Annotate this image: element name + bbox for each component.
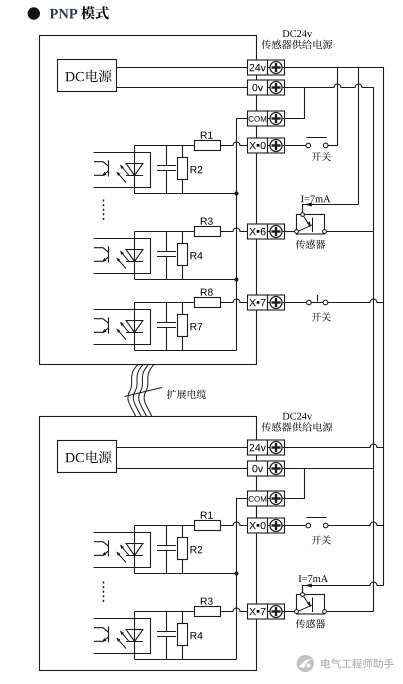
wire drop 24v to upper sensor supply xyxy=(358,68,360,205)
terminal 24v L: screw symbol xyxy=(268,442,285,454)
terminal 24v L: label text xyxy=(250,444,266,451)
wire X*6 U to sensor xyxy=(285,231,295,233)
wire 0v L to 0v rail xyxy=(285,468,374,470)
wire switch to 24v rail (hop over 0v rail) xyxy=(328,299,384,303)
title PNP 模式 xyxy=(50,9,78,19)
terminal 24v U: screw symbol xyxy=(268,62,285,74)
terminal X*7 L: screw symbol xyxy=(268,606,285,618)
sensor pin circles xyxy=(295,593,327,614)
upper COM bus xyxy=(237,119,248,351)
upper input row X*6: top wire xyxy=(135,231,195,233)
label R2 xyxy=(191,546,203,553)
lower PLC unit enclosure xyxy=(40,417,257,671)
optocoupler phototransistor xyxy=(94,160,109,176)
label R7 xyxy=(191,323,203,330)
terminal COM L: screw symbol xyxy=(268,493,285,505)
label R1 xyxy=(201,512,213,519)
upper input row X*0: top wire xyxy=(135,145,195,147)
resistor R1 xyxy=(195,521,221,531)
row bottom wire to COM bus xyxy=(135,573,237,575)
wire X*7 L to sensor xyxy=(285,611,295,613)
row bottom wire to COM bus xyxy=(135,279,237,281)
label DC24v xyxy=(283,30,313,37)
optocoupler light arrows xyxy=(117,632,129,649)
optocoupler LED branch wire xyxy=(134,232,136,280)
optocoupler light arrows xyxy=(117,252,129,269)
label R2 xyxy=(191,166,203,173)
resistor R3 xyxy=(195,227,221,237)
wire sensor supply to 24v rail (hop over 0v rail) xyxy=(303,582,384,593)
label R4 xyxy=(191,632,203,639)
terminal X*0 L: screw symbol xyxy=(268,520,285,532)
expansion cable strands xyxy=(128,365,138,417)
optocoupler box xyxy=(94,239,151,274)
wire R3 to terminal X*6 (hop over COM bus) xyxy=(221,228,248,231)
junction node lower row X*0 common xyxy=(235,572,239,576)
optocoupler box xyxy=(94,153,151,188)
wire COM L to 0v line xyxy=(285,469,305,499)
label I=7mA xyxy=(299,575,328,582)
terminal X*6 U: label text xyxy=(249,228,259,235)
resistor R2 (parallel) xyxy=(178,146,188,194)
sensor box xyxy=(297,215,325,235)
filter capacitor branch xyxy=(157,526,176,574)
wire X*0 L to switch xyxy=(285,525,307,527)
watermark logo xyxy=(297,655,314,672)
terminal X*7 U: label text xyxy=(249,299,259,306)
optocoupler phototransistor xyxy=(94,540,109,556)
terminal X*6 U: screw symbol xyxy=(268,226,285,238)
label 开关 xyxy=(312,312,331,321)
label 开关 xyxy=(312,535,331,544)
switch contact circles xyxy=(306,143,328,148)
terminal 0v L: screw symbol xyxy=(268,463,285,475)
terminal X*0 L: label text xyxy=(249,522,259,529)
label 传感器 xyxy=(296,619,326,628)
terminal COM U: label box xyxy=(248,111,268,126)
switch blade (open) xyxy=(306,137,326,139)
resistor R8 xyxy=(195,298,221,308)
optocoupler LED xyxy=(126,321,143,333)
optocoupler box xyxy=(94,310,151,345)
watermark text 电气工程师助手 xyxy=(321,659,393,669)
label R1 xyxy=(201,132,213,139)
terminal X*7 U: screw symbol xyxy=(268,297,285,309)
resistor R3 xyxy=(195,607,221,617)
resistor R4 (parallel) xyxy=(178,612,188,660)
wire DC+ to 24v terminal (lower) xyxy=(117,447,248,449)
optocoupler phototransistor xyxy=(94,246,109,262)
switch blade (open) xyxy=(306,517,326,519)
sensor internal PNP transistor symbol xyxy=(298,596,312,612)
wire switch to 24v drop xyxy=(328,145,338,147)
terminal X*0 U: screw symbol xyxy=(268,140,285,152)
wire sensor top to 24v drop xyxy=(303,205,359,213)
optocoupler phototransistor xyxy=(94,626,109,642)
resistor R2 (parallel) xyxy=(178,526,188,574)
terminal 0v U: screw symbol xyxy=(268,82,285,94)
optocoupler light arrows xyxy=(117,546,129,563)
terminal X*7 L: screw box xyxy=(268,604,285,619)
terminal X*0 U: label text xyxy=(249,142,259,149)
wire X*7 U to switch xyxy=(285,302,307,304)
terminal 0v U: screw box xyxy=(268,80,285,95)
terminal 24v L: label box xyxy=(248,440,268,455)
optocoupler light arrows xyxy=(117,166,129,183)
lower input row X*7: top wire xyxy=(135,611,195,613)
terminal 0v U: label text xyxy=(252,84,263,91)
terminal X*7 L: label text xyxy=(249,608,259,615)
DC power supply box DC电源 xyxy=(58,60,117,92)
filter capacitor branch xyxy=(157,232,176,280)
wire DC- to 0v terminal xyxy=(117,87,248,89)
junction node row X*6 common xyxy=(235,278,239,282)
optocoupler LED branch wire xyxy=(134,303,136,351)
terminal X*6 U: screw box xyxy=(268,224,285,239)
ellipsis (more inputs) xyxy=(103,200,105,223)
label 开关 xyxy=(312,152,331,161)
sensor supply stub xyxy=(302,205,304,213)
optocoupler box xyxy=(94,619,151,654)
wire R1 to terminal X*0 (hop over COM bus) xyxy=(221,522,248,525)
optocoupler phototransistor xyxy=(94,317,109,333)
wire COM U to 0v line xyxy=(285,88,305,119)
terminal X*0 L: screw box xyxy=(268,518,285,533)
terminal 24v U: label box xyxy=(248,60,268,75)
terminal 0v L: label text xyxy=(252,465,263,472)
optocoupler LED branch wire xyxy=(134,146,136,194)
filter capacitor branch xyxy=(157,303,176,351)
terminal X*7 U: screw box xyxy=(268,295,285,310)
label R4 xyxy=(191,252,203,259)
lower input row X*0: top wire xyxy=(135,525,195,527)
label 扩展电缆 xyxy=(167,390,206,399)
junction node row X*0 common xyxy=(235,192,239,196)
wire sensor output to 0v rail xyxy=(326,611,373,613)
upper input row X*7: top wire xyxy=(135,302,195,304)
terminal COM L: label text xyxy=(249,496,267,502)
label DC24v xyxy=(283,413,313,420)
lower COM bus xyxy=(237,499,248,660)
terminal COM U: label text xyxy=(249,116,267,122)
terminal COM U: screw symbol xyxy=(268,113,285,125)
title bullet xyxy=(28,7,40,19)
row bottom wire to COM bus xyxy=(135,659,237,661)
wire drop 24v to upper X*0 switch xyxy=(337,68,339,146)
terminal COM L: screw box xyxy=(268,491,285,506)
wire R1 to terminal X*0 (hop over COM bus) xyxy=(221,142,248,146)
label 传感器 xyxy=(296,240,326,249)
terminal X*7 L: label box xyxy=(248,604,268,619)
terminal 0v L: label box xyxy=(248,461,268,476)
row bottom wire to COM bus xyxy=(135,193,237,195)
ellipsis (more inputs, lower) xyxy=(103,582,105,604)
resistor R7 (parallel) xyxy=(178,303,188,351)
0v return rail with hops xyxy=(285,84,374,612)
switch contact circles xyxy=(306,523,328,528)
wire DC- to 0v terminal (lower) xyxy=(117,468,248,470)
wire 24v L to 24v rail (hop over 0v rail) xyxy=(285,444,384,448)
cable slash xyxy=(125,388,163,397)
terminal X*0 U: screw box xyxy=(268,138,285,153)
optocoupler LED xyxy=(126,164,143,176)
terminal 24v U: label text xyxy=(250,64,266,71)
optocoupler LED branch wire xyxy=(134,526,136,574)
terminal 0v L: screw box xyxy=(268,461,285,476)
row bottom wire to COM bus xyxy=(135,350,237,352)
current direction arrow xyxy=(304,584,312,588)
switch blade (closed) with actuator xyxy=(311,295,323,303)
optocoupler LED xyxy=(126,250,143,262)
label 传感器供给电源 xyxy=(262,40,333,50)
sensor supply stub xyxy=(302,586,304,593)
wire switch to 24v rail (hop over 0v rail) xyxy=(328,522,384,525)
sensor box xyxy=(297,595,325,615)
upper PLC unit enclosure xyxy=(40,36,257,365)
optocoupler light arrows xyxy=(117,323,129,340)
current direction arrow xyxy=(304,203,312,207)
wire sensor output to 0v rail xyxy=(326,231,373,233)
sensor pin circles xyxy=(295,213,327,234)
filter capacitor branch xyxy=(157,146,176,194)
DC power supply box DC电源 xyxy=(58,441,117,473)
label I=7mA xyxy=(301,195,330,202)
resistor R4 (parallel) xyxy=(178,232,188,280)
filter capacitor branch xyxy=(157,612,176,660)
label 传感器供给电源 xyxy=(262,422,333,432)
terminal 24v L: screw box xyxy=(268,440,285,455)
wire X*0 U to switch xyxy=(285,145,307,147)
terminal X*0 L: label box xyxy=(248,518,268,533)
wire R8 to terminal X*7 (hop over COM bus) xyxy=(221,299,248,303)
label R3 xyxy=(201,598,213,605)
switch contact circles xyxy=(307,300,328,305)
wire DC+ to 24v terminal xyxy=(117,67,248,69)
optocoupler LED xyxy=(126,544,143,556)
wire R3 to terminal X*7 (hop over COM bus) xyxy=(221,608,248,612)
terminal X*0 U: label box xyxy=(248,138,268,153)
terminal COM L: label box xyxy=(248,491,268,506)
optocoupler box xyxy=(94,533,151,568)
terminal X*6 U: label box xyxy=(248,224,268,239)
terminal 0v U: label box xyxy=(248,80,268,95)
sensor internal PNP transistor symbol xyxy=(298,216,312,232)
label R3 xyxy=(201,218,213,225)
terminal X*7 U: label box xyxy=(248,295,268,310)
optocoupler LED xyxy=(126,630,143,642)
terminal COM U: screw box xyxy=(268,111,285,126)
resistor R1 xyxy=(195,141,221,151)
optocoupler LED branch wire xyxy=(134,612,136,660)
terminal 24v U: screw box xyxy=(268,60,285,75)
label R8 xyxy=(201,289,213,296)
24v supply rail xyxy=(285,68,384,586)
